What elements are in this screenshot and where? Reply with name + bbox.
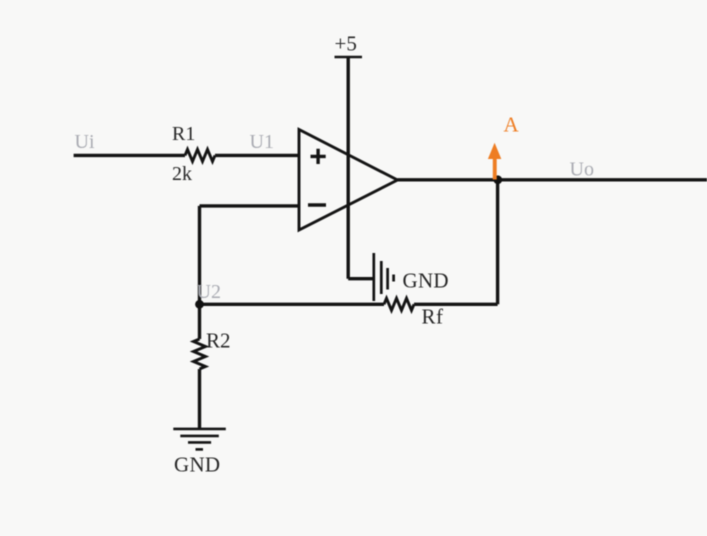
ground rotated bar 3 — [386, 268, 389, 290]
wire feedback bottom — [200, 303, 385, 306]
wire output — [398, 178, 707, 181]
ground rotated bar 2 — [380, 261, 383, 294]
resistor R2 — [194, 339, 206, 369]
wire output node vertical — [496, 180, 499, 304]
ground rotated bar 4 — [392, 275, 395, 282]
ground GND bar 4 — [196, 448, 204, 451]
wire +5 vertical — [347, 57, 350, 279]
wire R2 top — [198, 304, 201, 339]
ground GND bar 2 — [180, 435, 219, 438]
power +5 rail bar — [335, 56, 363, 59]
node A junction dot — [493, 175, 502, 184]
svg-text:U2: U2 — [197, 281, 221, 303]
wire R1 to op-amp — [215, 154, 299, 157]
wire Rf to output node — [414, 303, 498, 306]
svg-text:2k: 2k — [172, 163, 192, 185]
svg-text:R2: R2 — [206, 329, 231, 353]
svg-text:GND: GND — [174, 453, 220, 477]
wire Ui input — [74, 154, 185, 157]
op-amp minus input symbol — [308, 203, 326, 206]
svg-text:Uo: Uo — [570, 159, 594, 181]
svg-text:+5: +5 — [335, 32, 357, 56]
node U2 junction dot — [195, 300, 204, 309]
svg-text:U1: U1 — [250, 131, 274, 153]
ground GND bar 3 — [188, 441, 211, 444]
ground GND bar 1 — [173, 428, 226, 431]
svg-text:R1: R1 — [172, 123, 195, 145]
resistor Rf — [384, 298, 414, 310]
ground rotated bar 1 — [372, 253, 375, 301]
svg-text:GND: GND — [403, 269, 449, 293]
svg-text:Ui: Ui — [75, 131, 95, 153]
wire U2 vertical — [198, 206, 201, 304]
svg-text:A: A — [504, 113, 520, 137]
wire R2 to ground — [198, 369, 201, 429]
wire minus input — [200, 204, 300, 207]
op-amp plus input symbol — [311, 149, 326, 164]
op-amp U1 triangle — [299, 130, 398, 231]
probe arrow A — [488, 143, 501, 180]
svg-text:Rf: Rf — [422, 305, 444, 329]
wire power pin to rotated ground — [348, 277, 374, 280]
resistor R1 — [185, 149, 215, 161]
